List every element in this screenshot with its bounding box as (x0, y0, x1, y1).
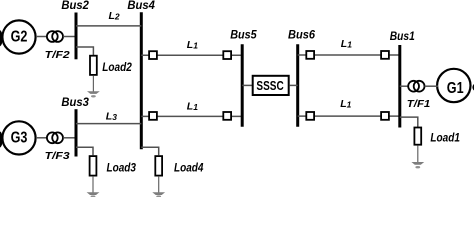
bus Bus1 (398, 45, 401, 128)
wire Bus3 to Load3 (76, 147, 93, 155)
bus Bus5 (241, 44, 244, 127)
transformer T/F2 (47, 31, 63, 42)
wire Bus2 to Load2 (76, 47, 93, 55)
ground below Load3 (87, 176, 100, 198)
svg-text:T/F1: T/F1 (407, 99, 431, 110)
svg-text:L1: L1 (187, 39, 198, 51)
wire L2 Bus2 to Bus4 (76, 25, 141, 27)
load Load3 (90, 156, 97, 176)
wire Bus1 to T/F1 (400, 85, 408, 87)
svg-text:L2: L2 (109, 10, 120, 22)
bus Bus4 (140, 12, 143, 149)
edge mark left of G3 (0, 131, 3, 147)
wire Bus5 to SSSC (242, 84, 252, 86)
load Load2 (90, 56, 97, 75)
svg-text:G2: G2 (11, 28, 28, 45)
svg-text:T/F3: T/F3 (45, 151, 70, 162)
ground below Load2 (87, 76, 100, 98)
svg-text:Bus3: Bus3 (61, 95, 89, 109)
transformer T/F1 (408, 81, 424, 92)
svg-text:Bus2: Bus2 (61, 0, 89, 12)
wire T/F2 to Bus2 (63, 36, 76, 38)
svg-text:T/F2: T/F2 (45, 50, 70, 61)
svg-text:G1: G1 (447, 80, 464, 97)
ground below Load4 (152, 176, 165, 198)
series box L1 top-right B (381, 51, 389, 59)
series box L1 top-left B (223, 51, 231, 59)
svg-text:Load4: Load4 (174, 161, 204, 175)
bus Bus3 (75, 109, 78, 156)
wire L1 bottom-right Bus6 to Bus1 (298, 115, 400, 117)
SSSC box (253, 76, 289, 95)
svg-text:Bus4: Bus4 (127, 0, 155, 12)
wire G3 to T/F3 (36, 137, 47, 139)
svg-text:Bus6: Bus6 (288, 27, 315, 41)
series box L1 bottom-right B (381, 112, 389, 120)
series box L1 bottom-left B (223, 112, 231, 120)
bus Bus2 (75, 13, 78, 60)
transformer T/F3 (47, 132, 63, 143)
wire L3 Bus3 to Bus4 (76, 123, 141, 125)
svg-text:Load2: Load2 (102, 60, 132, 74)
series box L1 bottom-left A (149, 112, 157, 120)
generator G1 (437, 69, 470, 102)
edge mark left of G2 (0, 30, 3, 46)
svg-text:L1: L1 (340, 98, 351, 110)
svg-text:Bus1: Bus1 (390, 29, 415, 43)
edge mark right of G1 (472, 84, 474, 91)
svg-text:G3: G3 (11, 130, 28, 147)
load Load1 (414, 128, 421, 145)
series box L1 top-left A (149, 51, 157, 59)
svg-text:SSSC: SSSC (256, 79, 283, 93)
wire Bus1 to Load1 (400, 117, 418, 127)
svg-text:Load1: Load1 (430, 131, 460, 145)
wire SSSC to Bus6 (290, 84, 298, 86)
generator G2 (2, 20, 35, 53)
wire T/F1 to G1 (425, 85, 439, 87)
wire L1 top-left Bus4 to Bus5 (141, 54, 241, 56)
generator G3 (2, 121, 35, 154)
bus Bus6 (296, 44, 299, 127)
wire T/F3 to Bus3 (63, 137, 76, 139)
svg-text:L1: L1 (187, 100, 198, 112)
wire G2 to T/F2 (36, 36, 47, 38)
svg-text:Load3: Load3 (107, 161, 137, 175)
svg-text:L1: L1 (341, 38, 352, 50)
load Load4 (155, 156, 162, 176)
series box L1 top-right A (306, 51, 314, 59)
ground below Load1 (411, 146, 424, 169)
wire L1 bottom-left Bus4 to Bus5 (141, 115, 241, 117)
wire L1 top-right Bus6 to Bus1 (298, 54, 400, 56)
svg-text:Bus5: Bus5 (230, 27, 257, 41)
wire Bus4 to Load4 (141, 147, 158, 155)
series box L1 bottom-right A (306, 112, 314, 120)
svg-text:L3: L3 (106, 111, 117, 123)
